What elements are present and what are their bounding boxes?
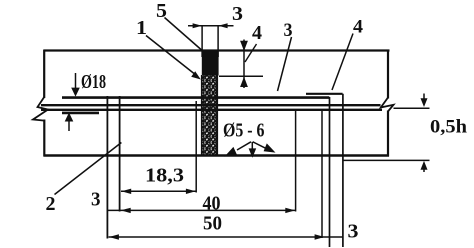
top dimension 3: right arrow: [218, 23, 227, 28]
dimension 4: upper arrow: [240, 41, 248, 51]
plate outline: top edge: [44, 49, 390, 51]
leader for label 3: [278, 37, 292, 91]
extension line L2 (left, for 40 and 18,3): [119, 96, 121, 212]
svg-text:0,5h: 0,5h: [430, 117, 467, 138]
dimension 4 (weld height): shaft: [243, 40, 245, 89]
plate outline: right edge upper: [387, 50, 389, 99]
cover plate top line H1: [62, 96, 329, 99]
svg-text:50: 50: [203, 213, 222, 235]
Ø5-6 middle arrow: [251, 142, 253, 150]
40 right arrow: [285, 208, 295, 213]
weld column left edge: [201, 75, 203, 156]
40 left arrow: [121, 208, 131, 213]
dimension 4: leader: [245, 44, 257, 62]
cover plate bottom stub H4: [62, 112, 99, 115]
top dimension 3: line: [188, 25, 234, 27]
leader for label 4: [332, 34, 353, 91]
plate outline: left edge upper: [43, 50, 45, 99]
plate outline: bottom edge: [44, 154, 389, 157]
dimension 4: extension line: [219, 75, 263, 77]
50 left arrow: [109, 234, 119, 239]
top dimension 3: left arrow: [193, 23, 202, 28]
outer strip top line (part 4): [306, 93, 343, 95]
svg-text:4: 4: [252, 22, 262, 44]
dimension 50: line: [109, 236, 344, 238]
plate outline: left break zigzag: [33, 97, 48, 121]
skin bottom line H3: [41, 109, 382, 111]
dimension 4: lower arrow: [240, 77, 248, 87]
0,5h upper arrow: [423, 94, 425, 100]
weld column right edge: [216, 75, 218, 156]
svg-text:1: 1: [136, 17, 147, 39]
Ø5-6 left arrow: [237, 142, 251, 150]
weld / crack column (cross-hatched): [201, 75, 218, 156]
svg-text:3: 3: [91, 189, 101, 211]
0,5h bottom extension line: [343, 159, 430, 161]
extension line V2 (outer strip right edge, down to dims): [342, 94, 344, 247]
plate outline: right edge lower: [387, 111, 389, 157]
extension line V1 (cover plate right edge, down to dims): [329, 97, 331, 247]
Ø5-6 right arrow: [253, 142, 266, 148]
svg-text:40: 40: [203, 193, 221, 215]
top dimension 3: tick lines: [202, 26, 218, 57]
svg-text:4: 4: [353, 17, 364, 38]
svg-text:18,3: 18,3: [145, 165, 184, 187]
svg-text:Ø18: Ø18: [81, 71, 106, 93]
leader for label 2: [55, 143, 122, 195]
Ø18 lower arrow: [65, 113, 74, 122]
skin top line H2: [41, 104, 381, 106]
extension line for 18,3 right: [195, 101, 197, 193]
18,3 right arrow: [186, 189, 196, 194]
svg-text:2: 2: [46, 193, 56, 215]
leader for label 5: [165, 18, 206, 54]
0,5h lower arrow: [421, 161, 428, 170]
18,3 left arrow: [121, 189, 131, 194]
svg-text:3: 3: [348, 221, 359, 243]
weld cap (black): [202, 52, 219, 76]
leader for label 1 with arrowhead: [146, 36, 197, 76]
dimension 40: line: [108, 209, 296, 211]
dimension 0,5h: top extension line: [394, 107, 430, 109]
svg-text:3: 3: [232, 3, 243, 25]
50 right arrow: [315, 234, 325, 239]
extension line V0 (right end of 50): [321, 110, 323, 238]
plate outline: right break zigzag: [381, 98, 394, 112]
svg-text:Ø5 - 6: Ø5 - 6: [223, 120, 265, 142]
extension line for 40 right: [295, 110, 297, 212]
dimension 18,3: line: [121, 190, 196, 192]
plate outline: left edge lower: [43, 120, 45, 157]
Ø18 upper arrow: [75, 73, 77, 89]
extension line L1 (left, for 50): [106, 96, 108, 239]
